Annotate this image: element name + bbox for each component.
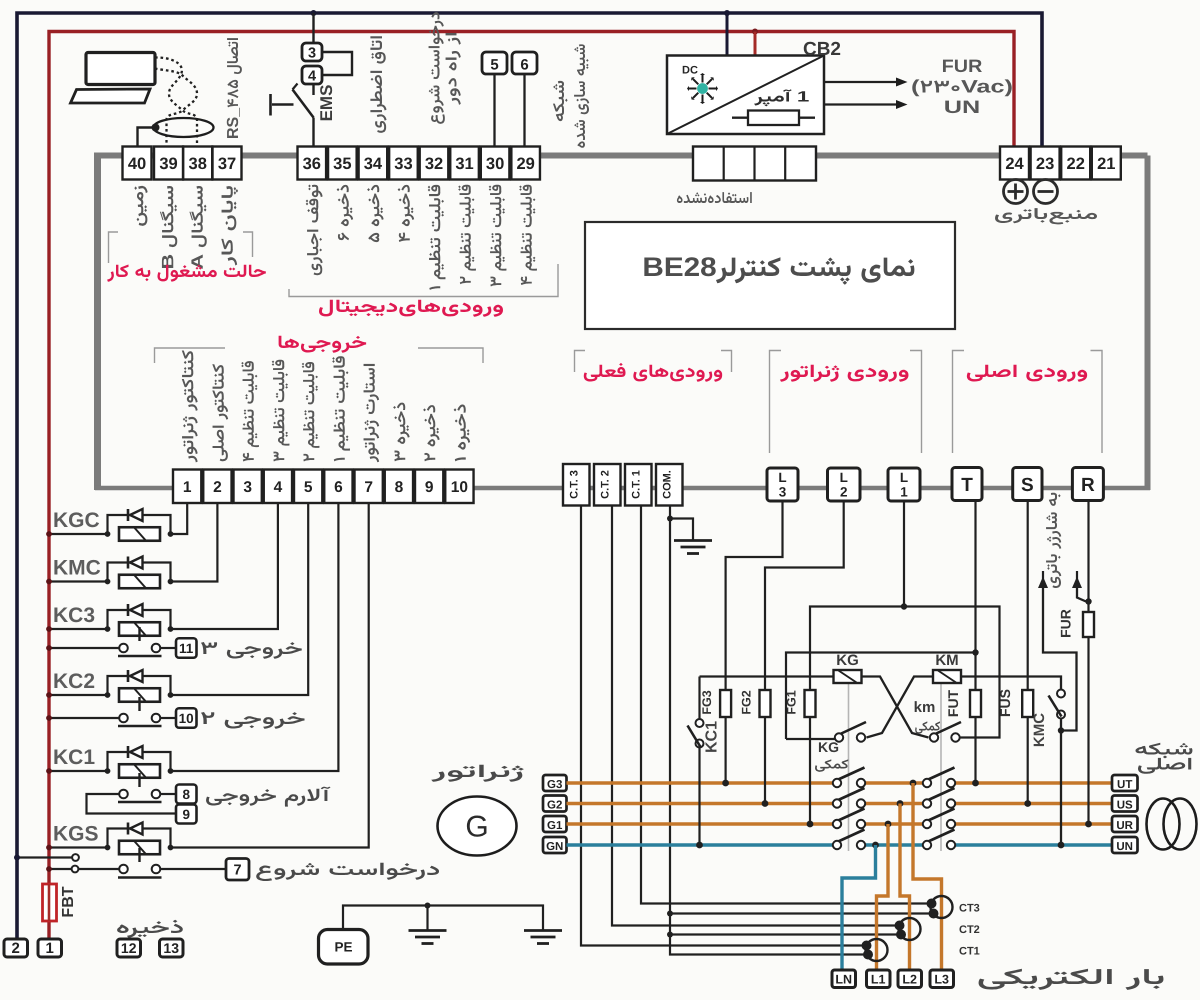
wire battery negative rail (navy): [17, 13, 1042, 940]
contactor KM pole at 824: [926, 809, 955, 822]
svg-text:KGS: KGS: [53, 823, 99, 846]
node rail KGS: [46, 845, 52, 851]
svg-text:8: 8: [395, 479, 404, 496]
svg-text:3: 3: [243, 479, 252, 496]
wire CB2 output 1: [824, 81, 896, 83]
wire L1 to km aux: [904, 607, 1000, 738]
svg-text:6: 6: [520, 57, 528, 74]
node UT tap: [910, 780, 917, 787]
node rail KGC: [46, 531, 52, 537]
terminal 1 bottom: [38, 939, 62, 957]
svg-text:3: 3: [779, 485, 787, 500]
svg-text:32: 32: [425, 155, 443, 173]
contactor KG pole at 845: [836, 830, 865, 843]
node KC3 left: [105, 626, 111, 632]
node FUS bus: [1024, 800, 1031, 807]
terminal 8: [385, 470, 413, 504]
svg-text:EMS: EMS: [317, 85, 336, 122]
wire KM coil to KMC: [961, 677, 1061, 690]
svg-text:21: 21: [1097, 155, 1115, 173]
unused terminal block: [693, 147, 816, 181]
node rail KC3: [46, 626, 52, 632]
node rail start: [46, 866, 52, 872]
wire KC1 to neutral: [698, 748, 700, 846]
bracket current inputs: [575, 351, 586, 373]
terminal box 3: [302, 43, 322, 61]
node R charger: [1085, 598, 1091, 604]
fuse FUS: [1022, 690, 1033, 717]
node rail KC2: [46, 692, 52, 698]
svg-text:LN: LN: [835, 973, 852, 987]
wire KGC to terminal riser: [171, 504, 188, 535]
svg-text:7: 7: [364, 479, 373, 496]
switch start request: [118, 876, 162, 878]
relay coil KC3: [119, 622, 160, 636]
wire DC positive drop: [754, 32, 757, 57]
terminal 32: [420, 147, 449, 180]
svg-text:KC1: KC1: [704, 721, 721, 753]
contactor KM pole at 783: [926, 768, 955, 781]
wire alarm loop: [87, 794, 177, 814]
terminal 24: [1000, 147, 1029, 180]
wire R to FUR: [1087, 501, 1089, 825]
node rail KMC: [46, 579, 52, 585]
svg-text:G1: G1: [547, 820, 563, 832]
svg-text:C.T. 3: C.T. 3: [569, 470, 581, 499]
cable shield ellipse: [154, 118, 214, 137]
terminal 38: [183, 147, 212, 180]
terminal 3: [234, 470, 262, 504]
laptop screen: [86, 53, 155, 85]
svg-text:KC3: KC3: [53, 604, 95, 627]
bus GN-UN neutral (teal): [567, 843, 834, 846]
bus G1-UR phase (orange): [567, 822, 834, 825]
svg-text:29: 29: [516, 155, 534, 173]
bus G2-US phase (orange): [567, 802, 834, 805]
wire rail to start switch: [49, 868, 72, 870]
svg-text:40: 40: [128, 155, 146, 173]
node rail switch 10: [46, 715, 52, 721]
wire KMC to terminal riser: [171, 504, 218, 582]
switch KC1: [696, 719, 704, 727]
terminal 2 bottom: [4, 939, 28, 957]
node rail KC1: [46, 768, 52, 774]
wire alarm switch to box 8: [160, 793, 176, 795]
battery plus symbol: [1004, 180, 1028, 204]
contactor KG pole at 824: [836, 809, 865, 822]
svg-text:34: 34: [364, 155, 383, 173]
svg-text:36: 36: [303, 155, 321, 173]
bus G3-UT phase (orange): [567, 781, 834, 784]
svg-text:KC1: KC1: [53, 746, 95, 769]
svg-text:S: S: [1021, 475, 1034, 496]
relay KGS freewheel loop: [108, 829, 171, 848]
relay KC2 freewheel loop: [108, 676, 171, 695]
switch alarm output: [118, 801, 162, 803]
node KC2 left: [105, 692, 111, 698]
node FG2 bus: [762, 800, 769, 807]
svg-text:FBT: FBT: [60, 886, 77, 917]
svg-text:24: 24: [1005, 155, 1024, 173]
node KMC left: [105, 579, 111, 585]
svg-text:38: 38: [189, 155, 207, 173]
svg-text:FG3: FG3: [700, 690, 714, 714]
svg-text:9: 9: [182, 807, 190, 822]
terminal box 10: [176, 708, 197, 728]
EMS pushbutton actuator: [269, 94, 272, 116]
diode KMC: [127, 557, 130, 569]
node ground tap: [425, 903, 431, 909]
svg-text:2: 2: [840, 485, 848, 500]
terminal L2: [828, 468, 861, 501]
bracket digital inputs: [289, 264, 558, 297]
svg-text:G3: G3: [547, 779, 562, 791]
diode KC3: [127, 604, 130, 616]
svg-text:UT: UT: [1117, 779, 1132, 791]
svg-text:GN: GN: [546, 841, 563, 853]
svg-text:31: 31: [455, 155, 473, 173]
terminal R: [1072, 468, 1103, 501]
svg-text:2: 2: [213, 479, 222, 496]
terminal S: [1013, 468, 1042, 501]
fuse FG3: [720, 690, 731, 717]
label box BE28 rear view: [585, 222, 955, 329]
wire rail to KMC: [49, 580, 108, 582]
wire C.T.1 to CT3: [641, 506, 931, 904]
generator G: [438, 797, 517, 856]
svg-text:13: 13: [163, 940, 179, 956]
relay KMC freewheel loop: [108, 563, 171, 582]
node FUR bus: [1085, 821, 1092, 828]
current transformer CT2: [899, 918, 921, 940]
wire ground stem: [426, 906, 428, 930]
terminal box 4: [302, 66, 322, 84]
wire KC2 to terminal riser: [171, 504, 309, 696]
fuse FG2: [760, 690, 771, 717]
svg-text:CB2: CB2: [803, 39, 841, 60]
current transformer CT1: [866, 939, 888, 961]
node COM CT3: [667, 911, 673, 917]
arrow to battery charger 2: [1072, 577, 1082, 589]
wire C.T.3 to CT1: [581, 506, 866, 946]
ground symbol COM: [674, 539, 712, 542]
svg-text:C.T. 1: C.T. 1: [631, 470, 643, 499]
relay coil KGS: [119, 841, 160, 855]
svg-text:UN: UN: [1116, 841, 1133, 853]
wire rail to KGC: [49, 533, 108, 535]
terminal PE: [319, 930, 369, 965]
wire EMS to terminal 36: [312, 118, 314, 147]
wire battery positive rail (dark red): [49, 32, 1014, 940]
contactor KM mechanical link: [940, 683, 942, 851]
svg-text:1: 1: [900, 485, 908, 500]
svg-text:UR: UR: [1116, 820, 1133, 832]
svg-text:33: 33: [394, 155, 412, 173]
diode KC2: [127, 670, 130, 682]
node FG3 bus: [722, 780, 729, 787]
terminal US: [1112, 796, 1138, 812]
terminal block C.T.3: [563, 464, 590, 506]
interlock box frame: [786, 653, 976, 740]
relay coil KG: [834, 670, 862, 683]
node KGC right: [168, 531, 174, 537]
switch EMS blade: [293, 90, 314, 118]
node KC2 right: [168, 692, 174, 698]
node KGS right: [168, 845, 174, 851]
ground symbol right: [524, 929, 562, 932]
terminal 33: [389, 147, 418, 180]
wire COM daisy chain: [670, 506, 867, 955]
wire box6 to terminal 29: [523, 74, 525, 147]
terminal 7: [355, 470, 383, 504]
svg-text:2: 2: [12, 940, 20, 957]
fuse FUT: [970, 690, 981, 717]
svg-text:KMC: KMC: [1031, 713, 1048, 747]
switch output 10: [118, 725, 162, 727]
svg-text:3: 3: [308, 46, 316, 62]
svg-text:11: 11: [179, 641, 194, 656]
wire interlock cross B: [867, 677, 934, 738]
relay KC3 freewheel loop: [108, 610, 171, 629]
contactor KG pole at 783: [836, 768, 865, 781]
wire T to FUT: [974, 501, 976, 784]
terminal box 9: [176, 805, 197, 824]
wire shield to terminal 40: [138, 128, 156, 147]
svg-text:KG: KG: [836, 652, 859, 669]
wire box5 to terminal 30: [493, 74, 495, 147]
svg-text:37: 37: [218, 155, 236, 173]
fuse inside CB2: [732, 117, 815, 119]
svg-text:KC2: KC2: [53, 670, 95, 693]
terminal 40: [123, 147, 152, 180]
contactor KG pole at 803.5: [836, 788, 865, 801]
node KGS left: [105, 845, 111, 851]
svg-text:COM.: COM.: [662, 470, 674, 499]
svg-text:L: L: [900, 470, 908, 485]
fuse FBT: [43, 884, 57, 921]
node DC+ rail tap: [752, 29, 758, 35]
svg-text:12: 12: [121, 940, 137, 956]
wire neutral to LN (teal): [842, 845, 876, 970]
wire navy to start contact: [17, 856, 72, 858]
terminal 21: [1092, 147, 1121, 180]
wire EMS loop: [322, 52, 352, 75]
svg-text:4: 4: [308, 69, 316, 85]
node interlock T: [972, 649, 978, 655]
relay KGC freewheel loop: [108, 515, 171, 534]
node KMC right: [168, 579, 174, 585]
terminal G2: [543, 796, 567, 812]
wire rail to KC2: [49, 694, 108, 696]
fuse FG1: [805, 690, 816, 717]
node KMC branch: [1058, 727, 1064, 733]
svg-text:FUT: FUT: [945, 689, 961, 717]
diode KGS: [127, 823, 130, 835]
terminal 2: [203, 470, 231, 504]
wire KC1 to terminal riser: [171, 504, 339, 772]
node KC1 bus: [696, 842, 703, 849]
wire CB2 output 2: [824, 103, 896, 105]
terminal 5: [294, 470, 322, 504]
wire KGS to terminal riser: [171, 504, 369, 848]
svg-text:L2: L2: [902, 973, 917, 987]
svg-text:35: 35: [333, 155, 351, 173]
switch output 11: [118, 655, 162, 657]
wire L2 to FG2: [765, 501, 844, 804]
node neutral tap: [872, 842, 879, 849]
wire US phase to L2 (orange): [900, 804, 910, 971]
svg-text:G2: G2: [547, 800, 562, 812]
wire start contact to switch: [79, 868, 120, 870]
wire COM to CT3 low: [670, 912, 932, 914]
wire switch to box 11: [160, 647, 176, 649]
svg-text:km: km: [914, 699, 936, 716]
terminal box 11: [176, 638, 197, 658]
terminal 29: [511, 147, 540, 180]
node UR tap: [885, 821, 892, 828]
wire rail to KC1: [49, 770, 108, 772]
wire EMS drop: [312, 13, 314, 43]
svg-text:C.T. 2: C.T. 2: [600, 470, 612, 499]
terminal 9: [415, 470, 443, 504]
svg-text:8: 8: [182, 787, 190, 802]
terminal 22: [1061, 147, 1090, 180]
svg-text:T: T: [961, 475, 973, 496]
controller BE28 outline box: [94, 153, 101, 491]
bracket mains input: [953, 351, 965, 454]
wire UR phase to L1 (orange): [877, 824, 889, 970]
transformer mains symbol: [1147, 799, 1180, 850]
terminal L3: [767, 468, 798, 501]
terminal 36: [298, 147, 327, 180]
node rail switch 11: [46, 645, 52, 651]
svg-text:10: 10: [179, 711, 194, 726]
wire PE to grounds: [343, 906, 543, 930]
svg-text:L1: L1: [871, 973, 886, 987]
bracket outputs: [155, 348, 226, 363]
svg-text:L: L: [840, 470, 848, 485]
wire KMC to neutral: [1060, 719, 1062, 846]
svg-text:FUR: FUR: [1058, 609, 1074, 638]
ground symbol left: [409, 929, 447, 932]
svg-text:US: US: [1117, 800, 1133, 812]
node shield: [152, 124, 160, 132]
node navy start: [14, 855, 20, 861]
svg-text:L3: L3: [934, 973, 949, 987]
node L1 sense: [901, 603, 907, 609]
wire switch to box 7: [160, 868, 226, 870]
wire box4 to switch: [312, 84, 314, 95]
terminal 1: [173, 470, 201, 504]
terminal 4: [264, 470, 292, 504]
svg-text:PE: PE: [334, 940, 352, 955]
svg-text:7: 7: [233, 863, 241, 879]
battery minus symbol: [1034, 180, 1058, 204]
switch KMC: [1057, 690, 1065, 698]
node FG1 bus: [807, 821, 814, 828]
svg-text:39: 39: [159, 155, 177, 173]
svg-text:CT2: CT2: [959, 924, 980, 936]
wire rail to output switch 11: [49, 647, 120, 649]
relay coil KM: [933, 670, 961, 683]
svg-text:FUS: FUS: [997, 689, 1013, 717]
wire C.T.2 to CT2: [612, 506, 899, 926]
terminal box 6: [512, 52, 537, 74]
node KC1 left: [105, 768, 111, 774]
node EMS rail tap: [311, 10, 317, 16]
svg-text:KGC: KGC: [53, 509, 100, 532]
contact KG auxiliary: [838, 722, 866, 735]
wire switch to box 10: [160, 717, 176, 719]
svg-text:5: 5: [490, 57, 498, 74]
terminal 34: [359, 147, 388, 180]
terminal L1: [888, 468, 920, 501]
terminal T: [952, 468, 982, 501]
terminal 35: [328, 147, 357, 180]
svg-text:L: L: [778, 470, 786, 485]
wire COM to CT2 low: [670, 933, 900, 935]
svg-text:KMC: KMC: [53, 557, 101, 580]
wire interlock cross A: [862, 677, 929, 738]
svg-text:CT3: CT3: [959, 903, 980, 915]
contactor KM pole at 803.5: [926, 788, 955, 801]
terminal 31: [450, 147, 479, 180]
svg-text:R: R: [1081, 475, 1095, 496]
node KC1 right: [168, 768, 174, 774]
svg-text:KG: KG: [818, 739, 839, 755]
wire L3 to FG3: [726, 501, 783, 783]
svg-text:KM: KM: [935, 652, 958, 669]
svg-text:10: 10: [451, 479, 468, 496]
wire UT phase to L3 (orange): [913, 783, 942, 970]
terminal L3 load: [930, 970, 954, 988]
terminal 13: [160, 939, 184, 957]
node KGC left: [105, 531, 111, 537]
terminal 6: [324, 470, 352, 504]
node KMC bus: [1058, 842, 1065, 849]
node COM ground: [667, 516, 673, 522]
relay coil KGC: [119, 527, 160, 541]
diode KC1: [127, 746, 130, 758]
svg-text:1: 1: [183, 479, 192, 496]
node US tap: [897, 800, 904, 807]
svg-text:6: 6: [334, 479, 343, 496]
relay coil KMC: [119, 575, 160, 589]
wire KC3 to terminal riser: [171, 504, 278, 630]
contactor KM pole at 845: [926, 830, 955, 843]
svg-text:22: 22: [1067, 155, 1085, 173]
wire RS485 twisted pair B (dotted): [155, 69, 197, 147]
node DC- rail tap: [724, 10, 730, 16]
terminal box 7: [226, 859, 249, 881]
svg-text:23: 23: [1036, 155, 1054, 173]
svg-text:CT1: CT1: [959, 946, 980, 958]
svg-text:1: 1: [46, 940, 54, 957]
relay KC1 freewheel loop: [108, 752, 171, 771]
terminal G3: [543, 775, 567, 791]
terminal box 5: [482, 52, 507, 74]
terminal 23: [1031, 147, 1060, 180]
fuse FUR: [1083, 612, 1094, 637]
wire charger arrow 2 to R line: [1077, 587, 1086, 602]
power supply CB2 box: [667, 56, 824, 135]
terminal 12: [117, 939, 141, 957]
svg-text:5: 5: [304, 479, 313, 496]
wire rail to output switch 10: [49, 717, 120, 719]
terminal GN: [543, 837, 567, 853]
terminal block COM: [656, 464, 683, 506]
bracket busy-state: [109, 232, 119, 263]
